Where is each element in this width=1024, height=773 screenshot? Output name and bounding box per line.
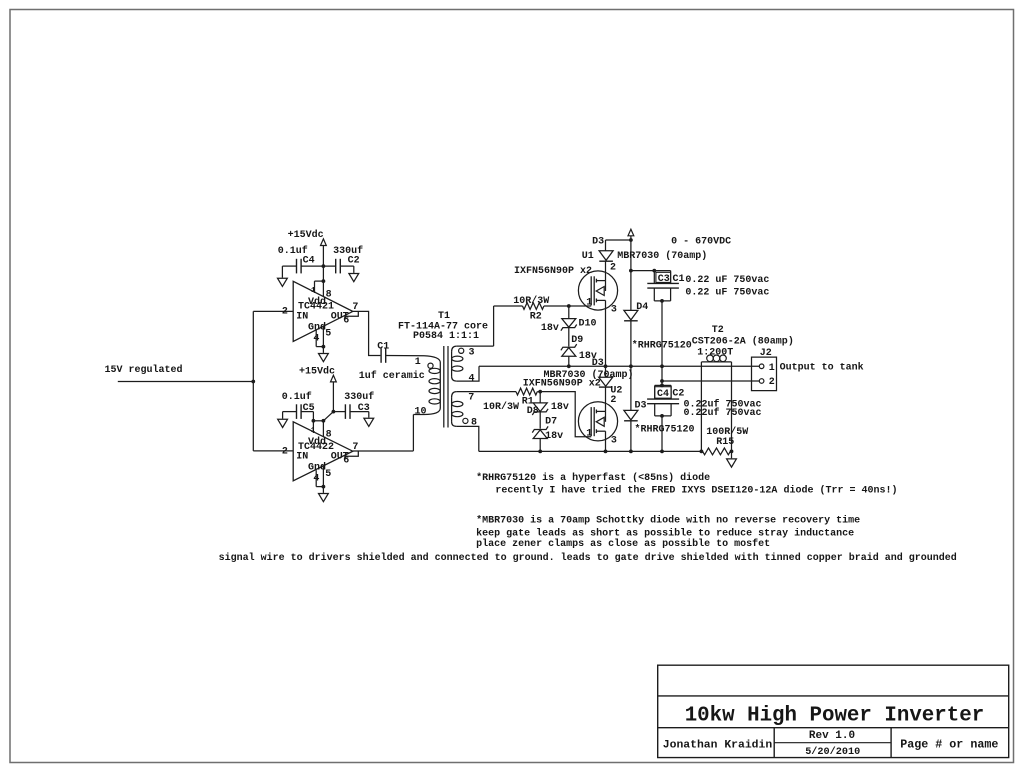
svg-text:D8: D8 bbox=[527, 406, 539, 417]
wire zener lead lower bbox=[539, 392, 541, 403]
wire T1 pin7 top bbox=[457, 391, 516, 393]
svg-text:Rev 1.0: Rev 1.0 bbox=[809, 730, 855, 742]
wire cap pair top lower bbox=[655, 384, 671, 386]
power +15Vdc arrow (driver2) bbox=[331, 375, 337, 382]
wire cap pair top bbox=[631, 270, 671, 272]
svg-text:P0584 1:1:1: P0584 1:1:1 bbox=[413, 331, 479, 342]
wire D8-D7 bbox=[539, 412, 541, 429]
T1 primary loop c bbox=[429, 388, 440, 393]
wire C5 to ground bbox=[282, 412, 284, 419]
svg-text:J2: J2 bbox=[760, 348, 772, 359]
junction D9 bus bbox=[567, 364, 571, 368]
svg-text:D7: D7 bbox=[545, 417, 557, 428]
svg-text:signal wire to drivers shielde: signal wire to drivers shielded and conn… bbox=[219, 552, 957, 564]
svg-text:IN: IN bbox=[296, 452, 308, 463]
svg-text:10R/3W: 10R/3W bbox=[513, 295, 549, 307]
T1 primary bottom corner bbox=[424, 408, 440, 415]
junction rail bus bbox=[629, 364, 633, 368]
wire cap leads upper bbox=[653, 271, 655, 284]
T1 primary top corner bbox=[424, 356, 440, 363]
wire U2 diode lead bbox=[605, 366, 607, 377]
zener D8 bbox=[533, 403, 547, 412]
junction cap bottom lower bbox=[660, 414, 664, 418]
diode D4 (RHRG75120) bbox=[624, 310, 638, 320]
svg-text:0 - 670VDC: 0 - 670VDC bbox=[671, 237, 731, 248]
junction zener tap lower bbox=[538, 390, 542, 394]
wire TC4422 out bbox=[353, 450, 414, 452]
title block divider 1 bbox=[658, 695, 1009, 697]
wire pin1/8 tie driver1 bbox=[315, 280, 324, 282]
svg-text:2: 2 bbox=[610, 262, 616, 273]
power +15Vdc arrow (driver1) bbox=[321, 239, 327, 246]
svg-text:C4: C4 bbox=[303, 256, 315, 267]
wire cap drop to rail bbox=[661, 416, 663, 452]
svg-text:C3: C3 bbox=[358, 403, 370, 414]
svg-text:5: 5 bbox=[325, 469, 331, 480]
junction cap top lower bbox=[660, 384, 664, 388]
svg-text:D10: D10 bbox=[579, 318, 597, 329]
T1 sec1 phase dot bbox=[459, 348, 464, 353]
T1 sec2 phase dot bbox=[463, 418, 468, 423]
wire C2 to ground bbox=[353, 266, 355, 273]
wire D7 to rail bbox=[539, 439, 541, 452]
ground R15 bbox=[727, 459, 737, 467]
diode D3 (MBR7030) bbox=[599, 251, 613, 260]
wire cap center drop bbox=[661, 301, 663, 366]
junction rail driver2 bbox=[332, 410, 336, 414]
op-amp driver U2 TC4422 bbox=[293, 422, 353, 481]
svg-text:330uf: 330uf bbox=[344, 391, 374, 403]
wire 15V regulated input bbox=[118, 381, 254, 383]
svg-text:IN: IN bbox=[296, 311, 308, 322]
svg-text:*RHRG75120: *RHRG75120 bbox=[635, 424, 695, 436]
transistor Q2 IXFN56N90P bbox=[578, 402, 617, 441]
zener D7 bbox=[533, 430, 547, 439]
wire cap leads lower-pair-top bbox=[654, 385, 656, 399]
title block rev divider bbox=[774, 742, 891, 744]
power arrow HV rail bbox=[628, 229, 634, 236]
title block divider 2 bbox=[658, 727, 1009, 729]
capacitor C5 bbox=[296, 404, 298, 419]
wire source to bus upper bbox=[605, 300, 607, 366]
wire cap leads lower bbox=[653, 288, 655, 301]
wire +15 rail driver2 bbox=[332, 382, 334, 412]
T1 primary loop a bbox=[429, 368, 440, 373]
wire to TC4421 IN bbox=[253, 310, 293, 312]
wire gnd pin4 driver1 bbox=[315, 330, 317, 347]
wire cap row driver2 right bbox=[333, 411, 345, 413]
junction Vdd pins driver1 bbox=[322, 279, 326, 283]
transformer T2 body bbox=[700, 362, 702, 452]
wire cap row driver1 bbox=[282, 265, 296, 267]
transformer T1 core bbox=[443, 346, 445, 428]
svg-text:D3: D3 bbox=[592, 236, 604, 247]
wire C3 to ground bbox=[368, 412, 370, 418]
junction D7 rail bbox=[538, 450, 542, 454]
ground C2 bbox=[349, 274, 359, 282]
title block frame bbox=[658, 665, 1009, 757]
svg-text:3: 3 bbox=[611, 305, 617, 316]
diode D3 (RHRG75120 lower) bbox=[624, 410, 638, 420]
svg-text:R15: R15 bbox=[716, 437, 734, 448]
capacitor C3 (330uf) bbox=[344, 404, 346, 419]
capacitor C2 bbox=[335, 259, 337, 274]
svg-text:5/20/2010: 5/20/2010 bbox=[805, 746, 860, 758]
junction pin2 tap bbox=[660, 379, 664, 383]
svg-text:IXFN56N90P x2: IXFN56N90P x2 bbox=[523, 379, 601, 390]
capacitor C4/C2 plates bbox=[647, 398, 679, 400]
svg-text:3: 3 bbox=[469, 348, 475, 359]
svg-text:C2: C2 bbox=[348, 256, 360, 267]
wire rail seg3 bbox=[630, 366, 632, 410]
svg-text:1uf ceramic: 1uf ceramic bbox=[359, 370, 425, 382]
T1 primary loop b bbox=[429, 379, 440, 384]
junction zener tap upper bbox=[567, 304, 571, 308]
wire gnd pin5 driver1 bbox=[322, 326, 324, 346]
svg-text:6: 6 bbox=[343, 456, 349, 467]
T1 primary edge bbox=[439, 363, 441, 409]
T1 sec2 loop b bbox=[452, 412, 463, 417]
svg-text:Output to tank: Output to tank bbox=[780, 361, 864, 373]
capacitor C4/C2 box bbox=[655, 387, 671, 399]
wire rail jog driver2 bbox=[323, 412, 333, 421]
wire D9 to bus bbox=[568, 356, 570, 366]
wire C5 drop to pin1 bbox=[312, 412, 314, 421]
junction cap lead top bbox=[652, 269, 656, 273]
title block vline 2 bbox=[890, 728, 892, 758]
wire +15 rail driver1 bbox=[322, 246, 324, 282]
svg-text:4: 4 bbox=[469, 373, 475, 384]
svg-text:+15Vdc: +15Vdc bbox=[288, 229, 324, 241]
svg-text:C1: C1 bbox=[673, 274, 685, 285]
svg-text:0.1uf: 0.1uf bbox=[282, 391, 312, 403]
capacitor C3/C1 box bbox=[656, 272, 671, 282]
wire gnd tie driver1 bbox=[316, 346, 323, 348]
wire D3 to drain bbox=[605, 261, 607, 280]
wire T1 pin10 riser bbox=[412, 415, 414, 451]
ground driver1 bbox=[319, 354, 329, 362]
T1 primary phase dot bbox=[428, 363, 433, 368]
junction source bus upper bbox=[604, 364, 608, 368]
junction R15 right bbox=[730, 450, 734, 454]
T1 sec1 loop a bbox=[452, 356, 463, 361]
junction R15 left bbox=[700, 450, 704, 454]
svg-text:1: 1 bbox=[586, 428, 592, 439]
wire input riser bbox=[252, 311, 254, 451]
wire top tie bbox=[606, 239, 631, 241]
J2 pin 2 circle bbox=[759, 379, 764, 384]
svg-text:Page # or name: Page # or name bbox=[900, 738, 998, 752]
svg-text:C4: C4 bbox=[657, 389, 669, 400]
wire drain internal upper bbox=[605, 281, 607, 291]
wire TC4421 out bbox=[353, 311, 381, 355]
wire T1 pin4 bottom bbox=[457, 366, 479, 381]
wire gate upper right bbox=[544, 305, 591, 307]
wire D3 lead top bbox=[605, 240, 607, 251]
svg-text:R2: R2 bbox=[530, 312, 542, 323]
svg-text:U1: U1 bbox=[582, 251, 594, 262]
svg-text:recently I have tried the FRED: recently I have tried the FRED IXYS DSEI… bbox=[495, 485, 897, 497]
svg-text:IXFN56N90P x2: IXFN56N90P x2 bbox=[514, 266, 592, 277]
junction source rail bbox=[604, 450, 608, 454]
resistor R15 bbox=[703, 448, 731, 455]
junction pin8 driver2 bbox=[322, 419, 326, 423]
capacitor C3/C1 plates bbox=[647, 282, 679, 284]
svg-text:0.22uf 750vac: 0.22uf 750vac bbox=[684, 407, 762, 419]
op-amp driver U1 TC4421 bbox=[293, 281, 353, 341]
wire cap row driver2 left bbox=[283, 411, 297, 413]
svg-text:10: 10 bbox=[415, 407, 427, 418]
T1 primary loop d bbox=[429, 399, 440, 404]
resistor R2 bbox=[523, 303, 544, 310]
ground C5 bbox=[278, 419, 288, 427]
T1 sec1 top corner bbox=[452, 346, 457, 352]
connector J2 box bbox=[752, 357, 777, 391]
wire pin1 driver2 bbox=[312, 421, 314, 433]
capacitor C1 (1uf ceramic) bbox=[380, 348, 382, 363]
zener D9 bbox=[562, 348, 576, 357]
T1 sec2 top corner bbox=[452, 392, 457, 398]
svg-text:*RHRG75120 is a hyperfast (<85: *RHRG75120 is a hyperfast (<85ns) diode bbox=[476, 472, 710, 484]
wire gate upper left bbox=[494, 305, 523, 307]
wire drain internal lower bbox=[605, 411, 607, 421]
T1 sec1 edge bbox=[451, 352, 453, 377]
svg-text:5: 5 bbox=[325, 329, 331, 340]
wire bottom rail bbox=[479, 450, 702, 452]
wire T1 pin8 bottom bbox=[457, 426, 479, 451]
T2 loop c bbox=[720, 355, 727, 362]
junction rail/caps driver1 bbox=[322, 264, 326, 268]
junction gnd driver2 bbox=[322, 485, 326, 489]
svg-text:7: 7 bbox=[468, 393, 474, 404]
svg-text:T2: T2 bbox=[712, 325, 724, 336]
wire HV arrow stem bbox=[630, 236, 632, 271]
ground C3 bbox=[364, 418, 374, 426]
T1 sec2 bottom corner bbox=[452, 422, 457, 427]
svg-text:18v: 18v bbox=[541, 323, 559, 334]
svg-text:+15Vdc: +15Vdc bbox=[299, 366, 335, 378]
ground driver2 bbox=[319, 494, 329, 502]
svg-text:8: 8 bbox=[471, 417, 477, 428]
wire pin1/8 tie driver2 bbox=[313, 420, 323, 422]
transistor Q1 IXFN56N90P bbox=[578, 271, 617, 310]
svg-text:T1: T1 bbox=[438, 311, 450, 322]
ground C4 bbox=[278, 278, 288, 286]
zener D10 bbox=[562, 319, 576, 328]
wire pin1 driver1 bbox=[314, 281, 316, 293]
svg-text:3: 3 bbox=[611, 435, 617, 446]
wire pin6 notch driver1 bbox=[344, 311, 358, 316]
wire gnd drop driver1 bbox=[322, 347, 324, 353]
svg-text:C1: C1 bbox=[377, 342, 389, 353]
wire gnd tie driver2 bbox=[316, 486, 323, 488]
wire mid bus bbox=[479, 365, 759, 367]
svg-text:18v: 18v bbox=[551, 402, 569, 413]
svg-text:*MBR7030 is a 70amp Schottky d: *MBR7030 is a 70amp Schottky diode with … bbox=[476, 514, 860, 526]
svg-text:C2: C2 bbox=[672, 389, 684, 400]
svg-text:10R/3W: 10R/3W bbox=[483, 401, 519, 413]
svg-text:10kw High Power Inverter: 10kw High Power Inverter bbox=[685, 705, 985, 728]
svg-text:1: 1 bbox=[769, 363, 775, 374]
svg-text:0.22 uF 750vac: 0.22 uF 750vac bbox=[685, 288, 769, 299]
svg-text:2: 2 bbox=[282, 447, 288, 458]
svg-text:Jonathan Kraidin: Jonathan Kraidin bbox=[663, 740, 773, 752]
wire rail junction C-tap bbox=[629, 269, 633, 273]
svg-text:2: 2 bbox=[769, 377, 775, 388]
svg-text:1: 1 bbox=[586, 298, 592, 309]
svg-text:place zener clamps as close as: place zener clamps as close as possible … bbox=[476, 538, 770, 550]
wire cap leads lower-pair-bot bbox=[654, 404, 656, 416]
wire rail seg1 bbox=[630, 271, 632, 311]
wire U2 diode to drain bbox=[605, 387, 607, 411]
junction cap bottom bbox=[660, 299, 664, 303]
svg-text:2: 2 bbox=[282, 306, 288, 317]
wire T1 pin3 top bbox=[457, 345, 494, 347]
junction pin1 driver2 bbox=[312, 419, 316, 423]
diode D3 (MBR7030 lower) bbox=[599, 377, 613, 386]
junction cap rail bbox=[660, 450, 664, 454]
wire cap pair bottom bbox=[654, 300, 670, 302]
wire source to rail lower bbox=[605, 431, 607, 451]
svg-text:C3: C3 bbox=[658, 274, 670, 285]
T1 sec2 loop a bbox=[452, 401, 463, 406]
svg-text:D9: D9 bbox=[571, 335, 583, 346]
T2 loop a bbox=[707, 355, 714, 362]
svg-text:6: 6 bbox=[343, 315, 349, 326]
junction input split bbox=[251, 380, 255, 384]
T2 loop b bbox=[713, 355, 720, 362]
wire pin6 notch driver2 bbox=[344, 451, 358, 456]
wire rail seg2 bbox=[630, 321, 632, 366]
junction cap bus bbox=[660, 364, 664, 368]
wire zener lead upper bbox=[568, 306, 570, 319]
T1 sec1 loop b bbox=[452, 366, 463, 371]
wire to TC4422 IN bbox=[253, 450, 293, 452]
svg-text:1: 1 bbox=[415, 357, 421, 368]
wire cap tap lower bbox=[661, 366, 663, 385]
wire pin8 driver2 bbox=[322, 421, 324, 437]
wire pin8 driver1 bbox=[322, 281, 324, 297]
wire gnd pin4 driver2 bbox=[315, 470, 317, 486]
svg-text:keep gate leads as short as po: keep gate leads as short as possible to … bbox=[476, 528, 854, 540]
wire R15 gnd lead bbox=[731, 451, 733, 458]
svg-text:D3: D3 bbox=[592, 358, 604, 369]
junction gnd driver1 bbox=[322, 345, 326, 349]
svg-text:D4: D4 bbox=[636, 302, 648, 313]
svg-text:2: 2 bbox=[610, 395, 616, 406]
wire T1 primary bottom bbox=[413, 414, 424, 416]
T1 sec1 bottom corner bbox=[452, 376, 457, 381]
svg-text:18v: 18v bbox=[545, 431, 563, 442]
capacitor C4 bbox=[296, 259, 298, 274]
svg-text:1:200T: 1:200T bbox=[697, 348, 733, 359]
svg-text:15V regulated: 15V regulated bbox=[105, 364, 183, 376]
wire C1 to T1 pin1 bbox=[386, 355, 424, 357]
wire rail seg4 bbox=[630, 421, 632, 451]
wire gate lower right bbox=[537, 392, 591, 437]
wire gnd pin5 driver2 bbox=[322, 467, 324, 487]
resistor R1 bbox=[516, 388, 537, 395]
wire pin3 riser bbox=[493, 306, 495, 346]
wire D10-D9 bbox=[568, 328, 570, 347]
svg-text:CST206-2A (80amp): CST206-2A (80amp) bbox=[692, 336, 794, 348]
wire gnd drop driver2 bbox=[322, 487, 324, 493]
junction top tie bbox=[629, 238, 633, 242]
svg-text:0.22 uF 750vac: 0.22 uF 750vac bbox=[685, 275, 769, 286]
J2 pin 1 circle bbox=[759, 364, 764, 369]
wire cap pair bottom lower bbox=[655, 415, 671, 417]
wire pin2 line bbox=[662, 380, 759, 382]
junction rail bottom bbox=[629, 450, 633, 454]
T1 sec2 edge bbox=[451, 397, 453, 422]
wire C4 to ground bbox=[281, 266, 283, 278]
title block vline 1 bbox=[773, 728, 775, 758]
